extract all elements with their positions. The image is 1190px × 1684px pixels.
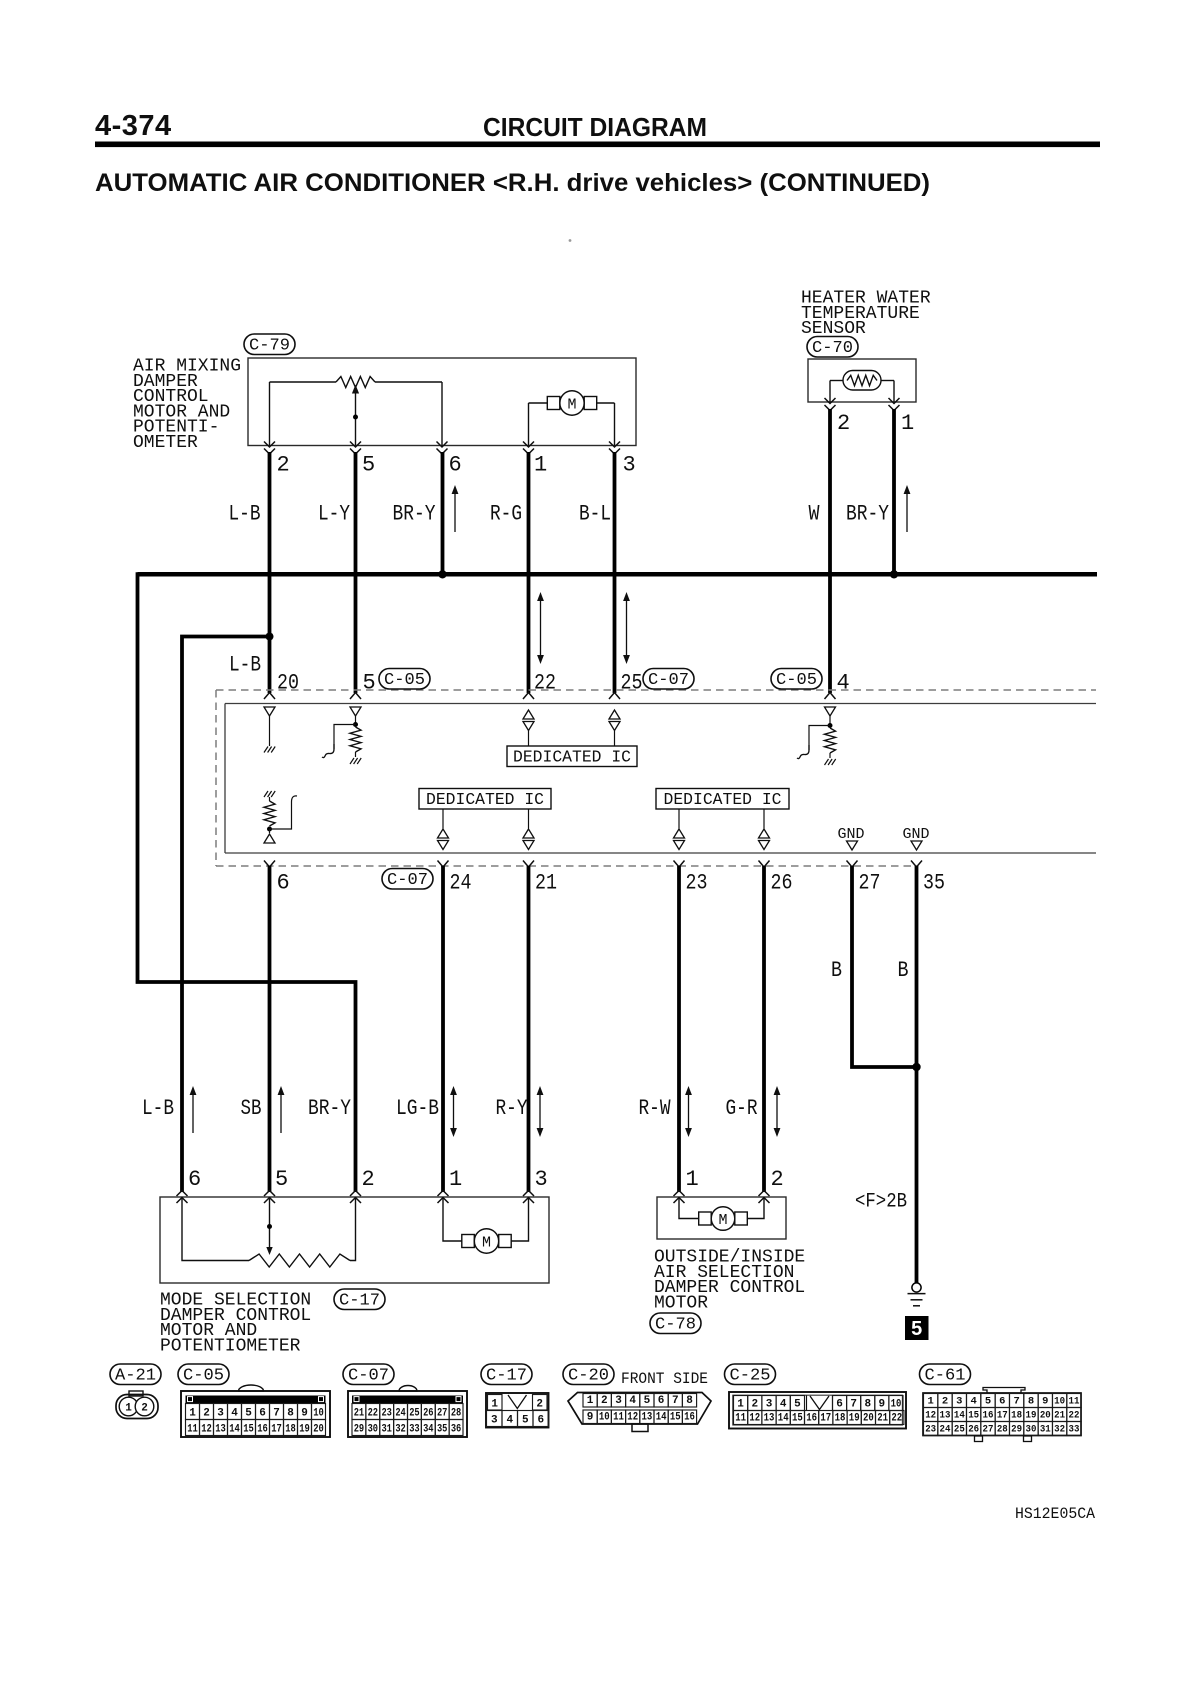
ECU pin 5 internal pull resistor bbox=[322, 707, 361, 764]
arrow double R-Y bbox=[539, 1090, 541, 1133]
svg-text:L-B: L-B bbox=[229, 653, 261, 678]
junction BR-Y right bus bbox=[890, 570, 898, 578]
thermistor in C-70 bbox=[830, 371, 894, 403]
bus wire BR-Y horizontal bbox=[138, 572, 1098, 577]
svg-text:23: 23 bbox=[381, 1408, 392, 1420]
C-78 pin terminals bbox=[674, 1191, 770, 1204]
svg-text:<F>2B: <F>2B bbox=[855, 1191, 907, 1214]
dedicated IC box top bbox=[507, 746, 637, 768]
svg-text:15: 15 bbox=[670, 1412, 681, 1424]
svg-text:4: 4 bbox=[837, 671, 850, 696]
svg-text:A-21: A-21 bbox=[115, 1366, 156, 1385]
svg-text:9: 9 bbox=[301, 1408, 308, 1420]
svg-text:31: 31 bbox=[381, 1424, 392, 1436]
svg-text:11: 11 bbox=[735, 1413, 746, 1425]
wire B-L from C-79 pin 3 bbox=[613, 452, 617, 693]
svg-text:1: 1 bbox=[125, 1403, 132, 1415]
arrow double LG-B bbox=[453, 1090, 455, 1133]
svg-text:33: 33 bbox=[1069, 1424, 1080, 1436]
svg-text:1: 1 bbox=[686, 1167, 699, 1192]
svg-text:29: 29 bbox=[1011, 1424, 1022, 1436]
svg-text:5: 5 bbox=[363, 671, 376, 696]
svg-text:27: 27 bbox=[859, 871, 881, 896]
svg-text:16: 16 bbox=[983, 1410, 994, 1422]
svg-text:30: 30 bbox=[1026, 1424, 1037, 1436]
svg-text:6: 6 bbox=[836, 1399, 843, 1411]
svg-text:19: 19 bbox=[1026, 1410, 1037, 1422]
component box C-79 bbox=[248, 358, 636, 446]
svg-text:5: 5 bbox=[275, 1167, 288, 1192]
connector label C-07 bottom bbox=[382, 869, 433, 890]
ECU pin 21 triangles bbox=[523, 829, 534, 850]
wire R-Y from ECU pin 21 bbox=[527, 866, 531, 1192]
svg-text:19: 19 bbox=[299, 1424, 310, 1436]
svg-text:15: 15 bbox=[792, 1413, 803, 1425]
C-70 pin terminals bbox=[825, 398, 900, 411]
svg-text:C-70: C-70 bbox=[812, 339, 853, 358]
svg-text:BR-Y: BR-Y bbox=[393, 502, 436, 527]
junction L-B bbox=[266, 633, 274, 641]
svg-text:R-G: R-G bbox=[490, 502, 522, 527]
svg-text:1: 1 bbox=[901, 411, 914, 436]
svg-text:OMETER: OMETER bbox=[133, 433, 198, 453]
svg-text:11: 11 bbox=[1069, 1396, 1080, 1408]
label OUTSIDE/INSIDE AIR SELECTION DAMPER CONTROL MOTOR bbox=[654, 1248, 805, 1314]
svg-text:1: 1 bbox=[189, 1408, 196, 1420]
svg-text:20: 20 bbox=[313, 1424, 324, 1436]
ECU bottom pin terminals bbox=[264, 861, 922, 868]
ECU pin 25 signal triangles bbox=[609, 710, 620, 746]
svg-text:32: 32 bbox=[1054, 1424, 1065, 1436]
svg-text:C-20: C-20 bbox=[568, 1366, 609, 1385]
svg-text:4: 4 bbox=[780, 1399, 787, 1411]
svg-text:FRONT SIDE: FRONT SIDE bbox=[621, 1370, 708, 1388]
wire L-B from C-79 pin 2 bbox=[268, 452, 272, 693]
svg-text:22: 22 bbox=[368, 1408, 378, 1420]
svg-text:C-05: C-05 bbox=[384, 671, 425, 690]
svg-text:6: 6 bbox=[449, 453, 462, 478]
svg-text:8: 8 bbox=[1028, 1396, 1034, 1408]
svg-text:7: 7 bbox=[273, 1408, 280, 1420]
svg-text:20: 20 bbox=[277, 671, 299, 696]
wire B from ECU pin 35 to ground bbox=[915, 866, 919, 1283]
svg-text:26: 26 bbox=[771, 871, 793, 896]
svg-text:3: 3 bbox=[491, 1415, 498, 1427]
svg-text:5: 5 bbox=[245, 1408, 252, 1420]
svg-text:2: 2 bbox=[837, 411, 850, 436]
C-17 pin terminals bbox=[177, 1191, 535, 1204]
ECU pin 20 internal ground bbox=[264, 707, 275, 753]
svg-text:2: 2 bbox=[942, 1396, 948, 1408]
svg-text:1: 1 bbox=[534, 453, 547, 478]
control unit inner box bbox=[225, 704, 1096, 854]
svg-text:28: 28 bbox=[997, 1424, 1008, 1436]
connector label C-17 strip bbox=[481, 1364, 532, 1385]
ECU GND pin 35 bbox=[903, 826, 930, 850]
svg-text:21: 21 bbox=[535, 871, 557, 896]
svg-text:2: 2 bbox=[601, 1395, 608, 1407]
arrow up BR-Y bbox=[454, 489, 456, 532]
wire G-R from ECU pin 26 bbox=[762, 866, 766, 1192]
svg-text:3: 3 bbox=[217, 1408, 224, 1420]
svg-text:MOTOR: MOTOR bbox=[654, 1293, 708, 1313]
svg-text:8: 8 bbox=[287, 1408, 294, 1420]
svg-text:13: 13 bbox=[940, 1410, 951, 1422]
svg-text:25: 25 bbox=[621, 671, 643, 696]
svg-text:11: 11 bbox=[613, 1412, 624, 1424]
svg-text:30: 30 bbox=[368, 1424, 378, 1436]
svg-text:1: 1 bbox=[737, 1399, 744, 1411]
svg-text:L-Y: L-Y bbox=[318, 502, 350, 527]
svg-text:6: 6 bbox=[658, 1395, 665, 1407]
svg-text:W: W bbox=[809, 502, 821, 527]
svg-text:G-R: G-R bbox=[726, 1096, 758, 1121]
ECU top pin terminals bbox=[264, 693, 836, 700]
header rule bbox=[95, 142, 1100, 148]
svg-text:34: 34 bbox=[423, 1424, 434, 1436]
svg-text:29: 29 bbox=[354, 1424, 364, 1436]
svg-text:6: 6 bbox=[999, 1396, 1005, 1408]
ground reference number 5 bbox=[905, 1316, 929, 1340]
svg-text:21: 21 bbox=[354, 1408, 365, 1420]
svg-text:2: 2 bbox=[362, 1167, 375, 1192]
svg-text:13: 13 bbox=[215, 1424, 226, 1436]
potentiometer in C-17 bbox=[182, 1197, 356, 1267]
svg-text:C-79: C-79 bbox=[249, 336, 290, 355]
svg-text:3: 3 bbox=[615, 1395, 622, 1407]
svg-text:32: 32 bbox=[395, 1424, 405, 1436]
ECU GND pin 27 bbox=[838, 826, 865, 850]
svg-text:21: 21 bbox=[1054, 1410, 1065, 1422]
svg-text:12: 12 bbox=[925, 1410, 936, 1422]
svg-text:14: 14 bbox=[229, 1424, 240, 1436]
svg-text:12: 12 bbox=[627, 1412, 638, 1424]
svg-text:4-374: 4-374 bbox=[95, 110, 172, 142]
svg-text:R-Y: R-Y bbox=[496, 1096, 528, 1121]
svg-text:HS12E05CA: HS12E05CA bbox=[1015, 1505, 1096, 1523]
svg-text:10: 10 bbox=[599, 1412, 610, 1424]
svg-text:22: 22 bbox=[891, 1413, 902, 1425]
svg-text:M: M bbox=[567, 397, 576, 414]
svg-text:6: 6 bbox=[259, 1408, 266, 1420]
svg-text:9: 9 bbox=[587, 1412, 594, 1424]
wire W from C-70 pin 2 bbox=[828, 409, 832, 693]
svg-text:CIRCUIT DIAGRAM: CIRCUIT DIAGRAM bbox=[483, 112, 707, 142]
svg-text:2: 2 bbox=[751, 1399, 758, 1411]
wire BR-Y return path left bbox=[138, 572, 356, 1192]
ECU pin 6 internal resistor bbox=[264, 791, 297, 843]
wire B from ECU pin 27 bbox=[852, 866, 917, 1067]
ECU pin 26 triangles bbox=[759, 829, 770, 850]
arrow up L-B bottom bbox=[192, 1090, 194, 1133]
svg-text:5: 5 bbox=[911, 1318, 922, 1340]
arrow double R-W bbox=[688, 1090, 690, 1133]
svg-text:20: 20 bbox=[863, 1413, 874, 1425]
component box C-78 bbox=[657, 1197, 786, 1239]
svg-text:12: 12 bbox=[201, 1424, 212, 1436]
svg-text:12: 12 bbox=[749, 1413, 760, 1425]
svg-text:10: 10 bbox=[891, 1399, 902, 1411]
svg-text:3: 3 bbox=[623, 453, 636, 478]
svg-text:C-17: C-17 bbox=[339, 1291, 380, 1310]
svg-text:5: 5 bbox=[522, 1415, 529, 1427]
svg-text:7: 7 bbox=[850, 1399, 857, 1411]
svg-text:27: 27 bbox=[437, 1408, 447, 1420]
connector label C-78 bbox=[650, 1313, 701, 1334]
svg-text:36: 36 bbox=[451, 1424, 461, 1436]
svg-text:18: 18 bbox=[1011, 1410, 1022, 1422]
svg-text:2: 2 bbox=[203, 1408, 210, 1420]
svg-text:1: 1 bbox=[587, 1395, 594, 1407]
connector label C-07 top bbox=[643, 669, 694, 690]
connector C-25 drawing bbox=[729, 1392, 906, 1429]
ECU pin 24 triangles bbox=[438, 829, 449, 850]
svg-text:17: 17 bbox=[271, 1424, 282, 1436]
svg-text:C-07: C-07 bbox=[387, 871, 428, 890]
svg-text:C-07: C-07 bbox=[648, 671, 689, 690]
svg-text:BR-Y: BR-Y bbox=[308, 1096, 351, 1121]
svg-text:C-25: C-25 bbox=[730, 1366, 771, 1385]
svg-text:15: 15 bbox=[243, 1424, 254, 1436]
svg-text:25: 25 bbox=[409, 1408, 420, 1420]
svg-text:5: 5 bbox=[985, 1396, 991, 1408]
svg-text:13: 13 bbox=[764, 1413, 775, 1425]
svg-text:16: 16 bbox=[806, 1413, 817, 1425]
svg-text:13: 13 bbox=[642, 1412, 653, 1424]
svg-text:14: 14 bbox=[656, 1412, 667, 1424]
svg-text:4: 4 bbox=[231, 1408, 238, 1420]
svg-text:5: 5 bbox=[794, 1399, 801, 1411]
svg-text:DEDICATED IC: DEDICATED IC bbox=[664, 791, 782, 810]
connector label C-05 right bbox=[771, 669, 822, 690]
label AIR MIXING DAMPER CONTROL MOTOR AND POTENTIOMETER bbox=[133, 357, 241, 454]
svg-text:23: 23 bbox=[686, 871, 708, 896]
connector label A-21 bbox=[110, 1364, 161, 1385]
svg-text:C-05: C-05 bbox=[776, 671, 817, 690]
svg-text:L-B: L-B bbox=[142, 1096, 174, 1121]
svg-text:1: 1 bbox=[928, 1396, 934, 1408]
svg-text:14: 14 bbox=[778, 1413, 789, 1425]
svg-text:3: 3 bbox=[535, 1167, 548, 1192]
svg-text:31: 31 bbox=[1040, 1424, 1051, 1436]
motor M in C-17 bbox=[443, 1197, 529, 1253]
svg-text:18: 18 bbox=[835, 1413, 846, 1425]
connector label C-17 under box bbox=[334, 1289, 385, 1310]
wire R-G from C-79 pin 1 bbox=[527, 452, 531, 693]
svg-text:35: 35 bbox=[923, 871, 945, 896]
svg-text:22: 22 bbox=[534, 671, 556, 696]
connector label C-07 strip bbox=[343, 1364, 394, 1385]
C-79 pin numbers bbox=[277, 453, 636, 478]
wire L-B branch to C-17 pin 6 bbox=[182, 637, 270, 1193]
stray dot bbox=[569, 239, 572, 242]
svg-text:SB: SB bbox=[241, 1096, 262, 1121]
svg-text:DEDICATED IC: DEDICATED IC bbox=[426, 791, 544, 810]
connector label C-61 strip bbox=[920, 1364, 971, 1385]
connector C-05 drawing bbox=[181, 1385, 330, 1437]
svg-text:7: 7 bbox=[1013, 1396, 1019, 1408]
svg-text:10: 10 bbox=[313, 1408, 324, 1420]
svg-text:25: 25 bbox=[954, 1424, 965, 1436]
svg-text:C-07: C-07 bbox=[348, 1366, 389, 1385]
svg-text:24: 24 bbox=[395, 1408, 406, 1420]
svg-text:6: 6 bbox=[277, 871, 290, 896]
dedicated IC box lower-right bbox=[656, 789, 789, 829]
svg-text:3: 3 bbox=[766, 1399, 773, 1411]
wire R-W from ECU pin 23 bbox=[677, 866, 681, 1192]
arrow double G-R bbox=[776, 1090, 778, 1133]
svg-text:33: 33 bbox=[409, 1424, 420, 1436]
ECU pin 4 internal pull resistor bbox=[797, 707, 836, 765]
svg-text:8: 8 bbox=[686, 1395, 693, 1407]
svg-text:2: 2 bbox=[277, 453, 290, 478]
svg-text:C-78: C-78 bbox=[655, 1315, 696, 1334]
svg-text:M: M bbox=[482, 1235, 491, 1252]
svg-text:4: 4 bbox=[970, 1396, 976, 1408]
connector label C-05 strip bbox=[178, 1364, 229, 1385]
svg-text:2: 2 bbox=[536, 1399, 543, 1411]
connector label C-05 top bbox=[379, 669, 430, 690]
svg-text:L-B: L-B bbox=[229, 502, 261, 527]
svg-text:16: 16 bbox=[257, 1424, 268, 1436]
connector label C-79 bbox=[244, 334, 295, 355]
svg-text:C-61: C-61 bbox=[925, 1366, 966, 1385]
wire LG-B from ECU pin 24 bbox=[441, 866, 445, 1192]
svg-text:LG-B: LG-B bbox=[396, 1096, 439, 1121]
svg-text:22: 22 bbox=[1069, 1410, 1080, 1422]
wire BR-Y from C-79 pin 6 to bus bbox=[441, 452, 445, 574]
wire SB from ECU pin 6 bbox=[268, 866, 272, 1192]
svg-text:18: 18 bbox=[285, 1424, 296, 1436]
connector A-21 drawing bbox=[116, 1391, 158, 1419]
svg-text:R-W: R-W bbox=[639, 1096, 672, 1121]
potentiometer resistor in C-79 bbox=[270, 377, 443, 446]
svg-text:7: 7 bbox=[672, 1395, 679, 1407]
svg-text:16: 16 bbox=[684, 1412, 695, 1424]
control unit dashed outline bbox=[216, 690, 1096, 866]
svg-text:14: 14 bbox=[954, 1410, 965, 1422]
connector C-20 drawing bbox=[568, 1393, 711, 1432]
potentiometer wiper C-79 pin 5 bbox=[352, 385, 359, 446]
component box C-17 bbox=[160, 1197, 549, 1283]
svg-text:20: 20 bbox=[1040, 1410, 1051, 1422]
svg-text:26: 26 bbox=[423, 1408, 433, 1420]
svg-text:17: 17 bbox=[820, 1413, 831, 1425]
svg-text:35: 35 bbox=[437, 1424, 448, 1436]
svg-text:24: 24 bbox=[940, 1424, 951, 1436]
svg-text:21: 21 bbox=[877, 1413, 888, 1425]
svg-text:9: 9 bbox=[879, 1399, 886, 1411]
svg-text:DEDICATED IC: DEDICATED IC bbox=[513, 749, 631, 768]
svg-text:3: 3 bbox=[956, 1396, 962, 1408]
svg-text:1: 1 bbox=[491, 1399, 498, 1411]
wire L-Y from C-79 pin 5 bbox=[354, 452, 358, 693]
arrow up SB bbox=[280, 1090, 282, 1133]
svg-text:19: 19 bbox=[849, 1413, 860, 1425]
svg-text:B: B bbox=[831, 958, 842, 983]
connector label C-70 bbox=[807, 337, 858, 358]
motor M in C-79 bbox=[529, 391, 615, 446]
svg-text:2: 2 bbox=[771, 1167, 784, 1192]
arrow double pin 22 bbox=[540, 596, 542, 660]
svg-text:AUTOMATIC AIR CONDITIONER <R.H: AUTOMATIC AIR CONDITIONER <R.H. drive ve… bbox=[95, 169, 930, 197]
svg-text:23: 23 bbox=[925, 1424, 936, 1436]
svg-text:4: 4 bbox=[629, 1395, 636, 1407]
label MODE SELECTION DAMPER CONTROL MOTOR AND POTENTIOMETER bbox=[160, 1291, 311, 1357]
svg-text:BR-Y: BR-Y bbox=[846, 502, 889, 527]
svg-text:9: 9 bbox=[1042, 1396, 1048, 1408]
ECU pin 22 signal triangles bbox=[523, 710, 534, 746]
svg-text:6: 6 bbox=[188, 1167, 201, 1192]
svg-text:5: 5 bbox=[644, 1395, 651, 1407]
svg-text:28: 28 bbox=[451, 1408, 462, 1420]
junction BR-Y bus bbox=[438, 570, 446, 578]
wire BR-Y from C-70 pin 1 to bus bbox=[892, 409, 896, 574]
svg-text:5: 5 bbox=[362, 453, 375, 478]
svg-text:M: M bbox=[718, 1212, 727, 1229]
dedicated IC box lower-left bbox=[419, 789, 551, 829]
svg-text:4: 4 bbox=[506, 1415, 513, 1427]
ground symbol bbox=[908, 1283, 926, 1306]
arrow double pin 25 bbox=[626, 596, 628, 660]
C-79 pin terminals bbox=[264, 442, 620, 455]
junction B wires bbox=[912, 1063, 920, 1071]
component box C-70 bbox=[808, 359, 916, 402]
svg-text:B: B bbox=[898, 958, 909, 983]
connector C-07 drawing bbox=[348, 1386, 467, 1437]
svg-text:B-L: B-L bbox=[579, 502, 611, 527]
svg-text:1: 1 bbox=[449, 1167, 462, 1192]
svg-text:POTENTIOMETER: POTENTIOMETER bbox=[160, 1336, 301, 1356]
svg-text:17: 17 bbox=[997, 1410, 1008, 1422]
connector label C-20 strip bbox=[563, 1364, 614, 1385]
connector label C-25 strip bbox=[725, 1364, 776, 1385]
label HEATER WATER TEMPERATURE SENSOR bbox=[801, 289, 931, 340]
svg-text:2: 2 bbox=[141, 1403, 148, 1415]
svg-text:C-17: C-17 bbox=[486, 1366, 527, 1385]
svg-text:26: 26 bbox=[968, 1424, 979, 1436]
svg-text:10: 10 bbox=[1054, 1396, 1065, 1408]
svg-text:15: 15 bbox=[968, 1410, 979, 1422]
arrow up BR-Y right bbox=[906, 489, 908, 532]
svg-text:6: 6 bbox=[537, 1415, 544, 1427]
svg-text:27: 27 bbox=[983, 1424, 994, 1436]
svg-text:8: 8 bbox=[864, 1399, 871, 1411]
ECU pin 23 triangles bbox=[674, 829, 685, 850]
svg-text:11: 11 bbox=[187, 1424, 198, 1436]
connector C-17 drawing bbox=[486, 1393, 549, 1428]
svg-text:C-05: C-05 bbox=[183, 1366, 224, 1385]
potentiometer wiper C-17 pin 5 bbox=[266, 1197, 272, 1255]
connector C-61 drawing bbox=[923, 1388, 1081, 1442]
motor M in C-78 bbox=[679, 1197, 764, 1230]
svg-text:24: 24 bbox=[450, 871, 472, 896]
